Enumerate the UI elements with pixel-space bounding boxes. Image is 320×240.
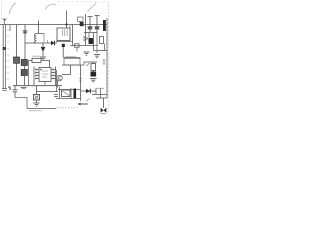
node blob on left rail xyxy=(3,47,6,50)
wire y88 right stub xyxy=(96,87,104,89)
op-amp U1 IC body xyxy=(39,68,51,82)
node tick xyxy=(47,40,49,43)
wire left of R1 xyxy=(29,59,33,61)
wire x56.5 down to cluster xyxy=(56,70,58,92)
ticks on x80.5 xyxy=(79,79,82,82)
ground GND1 xyxy=(40,57,46,60)
wire left rail pair xyxy=(2,25,4,90)
ground GND5 xyxy=(34,103,40,106)
arrow annotation lower-middle xyxy=(79,103,89,105)
transistor Q1 blob xyxy=(89,38,94,44)
wire x93.5 xyxy=(93,33,95,51)
module X4 box xyxy=(62,90,71,97)
module X2 box xyxy=(64,59,80,66)
wire bottom bus2 xyxy=(27,108,56,110)
wire connect xyxy=(83,62,85,65)
dotted continuation bus2 xyxy=(56,107,78,109)
wire x97 down xyxy=(96,33,98,54)
ground GND6 xyxy=(21,87,27,88)
wire horizontal y62 right xyxy=(84,61,97,63)
label above R1 xyxy=(32,55,40,57)
wire horizontal y32.5 xyxy=(84,32,97,34)
resistor R3 block lower xyxy=(21,70,27,76)
node solder blob xyxy=(62,44,65,47)
ground GND2 xyxy=(84,52,90,55)
diode D1 xyxy=(51,41,55,45)
crystal Y1 wire xyxy=(36,86,38,95)
wire x104.5 xyxy=(104,44,106,51)
wire x71 xyxy=(70,88,72,99)
wire x103.5 down xyxy=(103,98,105,108)
dashed margin top xyxy=(58,1,108,3)
diode D4 xyxy=(84,37,88,41)
relay K1 box xyxy=(57,28,70,41)
wire y98 right xyxy=(96,97,107,99)
wire from blob to box2 xyxy=(63,57,80,59)
wire mid horizontal y45.5 xyxy=(70,45,98,47)
wire stub x10 xyxy=(9,25,11,32)
connector end lower-left xyxy=(2,86,11,91)
label above X2 xyxy=(65,55,76,57)
wire x96 xyxy=(95,88,97,95)
pin pads left xyxy=(35,69,37,70)
antenna input symbol xyxy=(3,18,7,24)
capacitor C5 electrolytic dark xyxy=(103,20,106,31)
diode D3 blob xyxy=(80,22,84,26)
squiggle annotation xyxy=(87,99,91,102)
tick marks cable shield xyxy=(7,30,9,79)
wire x89 xyxy=(88,33,90,39)
wire IC right rail xyxy=(55,67,57,86)
annotation curve top-center xyxy=(45,4,56,9)
base mark xyxy=(101,113,106,115)
wire to bottom bus xyxy=(15,98,27,109)
resistor R2 block upper xyxy=(21,60,27,66)
wire vertical x17 xyxy=(16,25,18,58)
wire coil top drop xyxy=(43,34,45,44)
wire top supply bus xyxy=(0,24,107,26)
wire vertical x28.5 xyxy=(28,60,30,85)
wire y91.5 xyxy=(37,91,59,93)
capacitor C6 dark blob xyxy=(91,72,97,77)
wire vertical x72.5 xyxy=(72,25,74,46)
capacitor C3 xyxy=(87,17,92,33)
wire horizontal y65 xyxy=(62,64,84,66)
wire IC left rail xyxy=(33,67,35,86)
resistor R1 box xyxy=(32,58,41,62)
pin 1 dot xyxy=(40,69,41,70)
wire main horizontal y43 xyxy=(34,42,57,44)
diode D5 xyxy=(86,89,90,93)
wire Y1 down xyxy=(36,100,38,103)
piezo LS1 bowtie xyxy=(101,108,104,113)
wire y91 right xyxy=(81,90,97,92)
wire horizontal to coil xyxy=(25,42,34,44)
resistor R6 vertical xyxy=(91,64,96,71)
wire horizontal y50.5 xyxy=(94,50,108,52)
capacitor C2 above bus xyxy=(78,17,84,22)
wire y89.5 xyxy=(58,89,81,91)
resistor R5 small box xyxy=(100,37,104,44)
wire between blocks xyxy=(24,66,26,70)
transistor Q2 xyxy=(57,75,63,81)
wire under relay xyxy=(56,41,73,43)
pin pads right xyxy=(52,69,54,70)
wire x80.5 long xyxy=(80,65,82,101)
wire x59.5 xyxy=(59,87,61,99)
wire stub right of junction xyxy=(69,25,71,29)
IC internal text xyxy=(42,71,48,77)
inductor L1 winding xyxy=(34,21,44,44)
diode D2 to ground xyxy=(42,43,44,47)
annotation slash top-right xyxy=(88,3,97,12)
crystal Y1 body xyxy=(34,95,40,101)
wire blob down xyxy=(62,47,64,58)
wire below T1 xyxy=(16,63,18,85)
wire right border rail xyxy=(106,18,108,98)
wire x100.5 xyxy=(100,88,102,98)
ground GND3 xyxy=(94,55,100,58)
dashed margin left xyxy=(1,2,3,22)
node junction on bus xyxy=(65,23,67,25)
wire Q2 down xyxy=(57,80,59,88)
capacitor C1 on x25 rail xyxy=(23,25,28,44)
annotation curve top-left xyxy=(9,3,16,14)
wire R3 to bottom rail xyxy=(24,76,26,86)
pot wiper arrow xyxy=(87,63,90,66)
pins left xyxy=(35,70,39,79)
wire IC bottom drop xyxy=(44,82,46,86)
wire y74.5 xyxy=(62,74,71,76)
capacitor C8 sideways xyxy=(54,95,58,97)
resistor R4 small xyxy=(75,44,80,47)
wire vertical x85.5 xyxy=(85,14,87,46)
capacitor C4 xyxy=(94,16,99,33)
pins right xyxy=(51,70,56,79)
ground GND4 xyxy=(90,79,97,82)
capacitor C9 dark bar xyxy=(74,89,77,99)
label under bus2 xyxy=(29,110,42,112)
capacitor C7 lower-left xyxy=(13,86,18,98)
dashed margin right xyxy=(107,2,109,115)
wire vertical feed to relay K1 xyxy=(66,11,68,29)
wire x70.5 xyxy=(70,65,72,75)
wire bottom rail y86 xyxy=(13,85,62,87)
wire y94.5 right xyxy=(92,94,107,96)
relay contacts hatch xyxy=(63,30,68,37)
wire y98.5 xyxy=(56,98,81,100)
wire vertical x77 xyxy=(76,47,78,51)
terminal X3 small xyxy=(103,59,106,66)
transformer T1 body xyxy=(14,57,20,63)
wire vertical x25 mid xyxy=(24,43,26,60)
wire right of R1 to IC xyxy=(41,60,50,67)
